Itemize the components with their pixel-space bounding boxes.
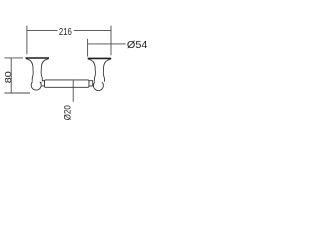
bar tube	[44, 80, 89, 87]
dimension O54 extension tick	[87, 39, 89, 57]
O20 leader over bar	[72, 80, 74, 88]
svg-text:80: 80	[3, 71, 13, 83]
right ferrule	[89, 81, 93, 86]
dimension 216 line right segment	[74, 30, 111, 32]
left post	[26, 58, 50, 90]
svg-text:Ø54: Ø54	[127, 39, 148, 51]
dimension 80 vertical line	[10, 58, 12, 93]
svg-text:Ø20: Ø20	[62, 105, 72, 120]
dimension O20 leader line	[72, 80, 74, 102]
dimension 80 top tick	[4, 57, 23, 59]
svg-text:216: 216	[59, 27, 72, 38]
dimension 216 line left segment	[27, 30, 58, 32]
dimension 216 left extension line	[26, 26, 28, 55]
dimension 216 right extension line	[110, 26, 112, 56]
left ferrule	[41, 81, 45, 86]
dimension O54 leader line	[88, 43, 126, 45]
right post	[88, 58, 112, 90]
dimension 80 bottom extension line	[4, 92, 30, 94]
